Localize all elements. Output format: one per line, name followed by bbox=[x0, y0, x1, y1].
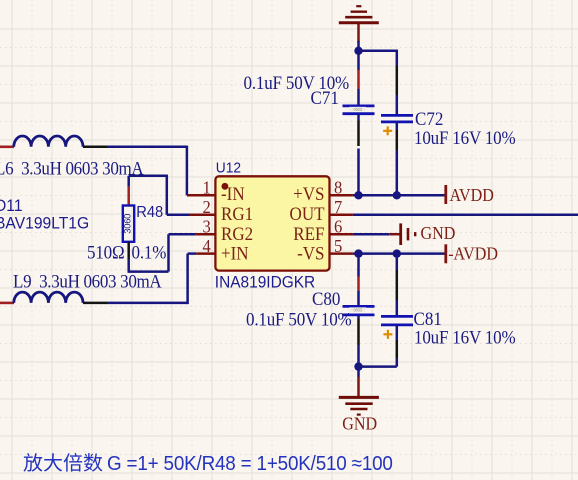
svg-text:BAV199LT1G: BAV199LT1G bbox=[0, 214, 89, 233]
pin number 4 bbox=[203, 236, 212, 256]
resistor R48 bottom pin (dark) bbox=[127, 242, 130, 259]
wire C81 to bottom junction bbox=[359, 358, 397, 367]
value C80 0.1uF 50V 10% bbox=[246, 309, 352, 330]
capacitor C71 bbox=[343, 106, 375, 114]
wire junction to GND bbox=[357, 367, 360, 377]
node junction C72/+VS bbox=[393, 191, 401, 199]
wire into C81 top plate bbox=[396, 300, 399, 316]
svg-text:AVDD: AVDD bbox=[450, 185, 494, 205]
power ground GND (right, rotated earth) bbox=[389, 223, 455, 245]
label R48 bbox=[136, 203, 163, 221]
inductor L9 pin stub (red) bbox=[0, 302, 14, 305]
pin name -IN bbox=[221, 183, 245, 204]
power ground (top earth symbol) bbox=[339, 6, 379, 42]
pin name OUT bbox=[290, 204, 325, 225]
inductor L6 bbox=[14, 136, 83, 147]
wire pin5 to -AVDD bbox=[353, 252, 446, 255]
svg-text:10uF 16V 10%: 10uF 16V 10% bbox=[414, 327, 516, 348]
pin 3 (RG2) stub bbox=[196, 233, 216, 236]
wire pin8 to AVDD bbox=[353, 194, 446, 197]
svg-text:0.1uF 50V 10%: 0.1uF 50V 10% bbox=[244, 72, 350, 93]
C81 plus sign bbox=[383, 330, 392, 339]
node bottom junction bbox=[354, 362, 362, 370]
wire L9 to pin4 bbox=[107, 254, 196, 305]
svg-text:OUT: OUT bbox=[290, 204, 325, 225]
wire REF to GND bbox=[353, 233, 389, 236]
svg-text:+IN: +IN bbox=[221, 243, 249, 264]
svg-text:6: 6 bbox=[334, 217, 343, 237]
svg-text:L9 3.3uH 0603 30mA: L9 3.3uH 0603 30mA bbox=[13, 271, 162, 292]
svg-text:D11: D11 bbox=[0, 197, 23, 216]
value R48 510ohm bbox=[87, 242, 167, 263]
pin name RG1 bbox=[221, 204, 253, 225]
svg-text:0.1uF 50V 10%: 0.1uF 50V 10% bbox=[246, 309, 352, 330]
label C72 bbox=[415, 109, 443, 130]
pin name -VS bbox=[297, 243, 324, 264]
pin 1 (-IN) stub bbox=[187, 194, 216, 197]
wire R48-top to pin2 bbox=[129, 175, 191, 215]
svg-text:GND: GND bbox=[342, 414, 377, 434]
capacitor C81 upper pin (dark) bbox=[396, 270, 399, 300]
pin name REF bbox=[293, 223, 324, 244]
svg-text:C80: C80 bbox=[312, 289, 340, 310]
wire C80 to bottom junction bbox=[357, 345, 360, 367]
svg-text:510Ω: 510Ω bbox=[87, 242, 124, 263]
node junction C71/+VS bbox=[354, 191, 362, 199]
power port -AVDD bbox=[446, 244, 498, 264]
label BAV199LT1G bbox=[0, 214, 89, 233]
pin number 7 bbox=[334, 197, 343, 217]
wire -VS to C80 bbox=[357, 254, 360, 277]
capacitor C80 lower pin (dark) bbox=[357, 315, 360, 345]
pin 4 (+IN) stub bbox=[196, 252, 215, 255]
svg-text:U12: U12 bbox=[216, 160, 241, 177]
capacitor C72 (polarized) bbox=[381, 115, 413, 122]
formula gain text bbox=[24, 452, 393, 475]
node top junction bbox=[354, 47, 362, 55]
pin 7 (OUT) stub bbox=[330, 214, 353, 217]
wire OUT to right edge bbox=[353, 214, 578, 217]
capacitor C81 (polarized) bbox=[381, 316, 413, 325]
value C81 10uF 16V 10% bbox=[414, 327, 516, 348]
svg-text:REF: REF bbox=[293, 223, 324, 244]
node junction C80/-VS bbox=[354, 249, 362, 257]
value C72 10uF 16V 10% bbox=[414, 127, 516, 148]
svg-text:-AVDD: -AVDD bbox=[448, 244, 498, 264]
svg-text:-IN: -IN bbox=[221, 183, 245, 204]
svg-text:2: 2 bbox=[203, 197, 211, 217]
svg-text:C72: C72 bbox=[415, 109, 443, 130]
power port AVDD bbox=[446, 185, 494, 205]
svg-text:-VS: -VS bbox=[297, 243, 324, 264]
wire into C72 top plate bbox=[396, 95, 399, 115]
inductor L6 right pin (dark) bbox=[83, 146, 107, 149]
pin number 5 bbox=[334, 236, 342, 256]
pin number 2 bbox=[203, 197, 211, 217]
capacitor C71 pin segment (red) bbox=[357, 70, 360, 89]
resistor R48 bbox=[123, 206, 135, 242]
C72 plus sign bbox=[383, 126, 392, 135]
svg-text:8: 8 bbox=[334, 178, 342, 198]
wire C71 to +VS rail bbox=[357, 149, 360, 196]
value C71 0.1uF 50V 10% bbox=[244, 72, 350, 93]
capacitor C80 bbox=[343, 306, 375, 315]
wire top-junction down to C71 bbox=[357, 41, 360, 70]
pin number 1 bbox=[203, 178, 211, 198]
node junction C81/-VS bbox=[393, 249, 401, 257]
svg-text:+VS: +VS bbox=[293, 183, 324, 204]
svg-text:1: 1 bbox=[203, 178, 211, 198]
svg-text:RG1: RG1 bbox=[221, 204, 253, 225]
inductor L9 bbox=[14, 292, 83, 303]
svg-text:0603: 0603 bbox=[354, 107, 363, 112]
label L9 value bbox=[13, 271, 162, 292]
wire L6 to pin1 bbox=[107, 146, 187, 196]
power ground GND (bottom earth symbol) bbox=[339, 377, 379, 434]
wire C72 to +VS rail bbox=[396, 150, 399, 195]
label C80 bbox=[312, 289, 340, 310]
pin 6 (REF) stub bbox=[330, 233, 353, 236]
svg-text:GND: GND bbox=[421, 223, 456, 243]
capacitor C81 lower pin (dark) bbox=[396, 325, 399, 358]
svg-text:G =1+ 50K/R48 = 1+50K/510 ≈100: G =1+ 50K/R48 = 1+50K/510 ≈100 bbox=[107, 452, 393, 475]
resistor R48 top pin (red) bbox=[127, 187, 130, 206]
inductor L9 right pin (dark) bbox=[83, 302, 107, 305]
svg-text:INA819IDGKR: INA819IDGKR bbox=[215, 273, 315, 292]
label D11 bbox=[0, 197, 23, 216]
label C71 bbox=[311, 88, 339, 109]
label U12 part number bbox=[215, 273, 315, 292]
svg-text:RG2: RG2 bbox=[221, 223, 253, 244]
wire into C71 top plate bbox=[357, 89, 360, 106]
svg-text:3: 3 bbox=[203, 217, 211, 237]
svg-text:5: 5 bbox=[334, 236, 342, 256]
pin 8 (+VS) stub bbox=[330, 194, 353, 197]
wire R48-bottom to pin3 bbox=[128, 234, 196, 271]
pin number 8 bbox=[334, 178, 342, 198]
svg-text:0.1%: 0.1% bbox=[132, 242, 167, 263]
pin name +IN bbox=[221, 243, 249, 264]
svg-text:L6 3.3uH 0603 30mA: L6 3.3uH 0603 30mA bbox=[0, 158, 144, 179]
capacitor C72 upper pin (dark) bbox=[396, 66, 399, 95]
capacitor C71 lower pin (dark) bbox=[357, 114, 360, 146]
capacitor C72 lower pin (dark) bbox=[396, 122, 399, 150]
inductor L6 pin stub (red) bbox=[0, 146, 14, 149]
pin name +VS bbox=[293, 183, 324, 204]
label L6 value bbox=[0, 158, 144, 179]
svg-text:7: 7 bbox=[334, 197, 343, 217]
wire -VS to C81 bbox=[396, 254, 399, 270]
wire down to R48 bbox=[127, 176, 130, 187]
svg-text:3060: 3060 bbox=[123, 214, 134, 234]
pin number 6 bbox=[334, 217, 343, 237]
op-amp U12 body bbox=[215, 176, 329, 270]
pin 2 (RG1) stub bbox=[190, 214, 216, 217]
pin 5 (-VS) stub bbox=[330, 252, 353, 255]
pin name RG2 bbox=[221, 223, 253, 244]
svg-text:10uF 16V 10%: 10uF 16V 10% bbox=[414, 127, 516, 148]
label U12 designator bbox=[216, 160, 241, 177]
label C81 bbox=[414, 309, 442, 330]
wire into C80 top plate bbox=[357, 291, 360, 307]
svg-text:R48: R48 bbox=[136, 203, 163, 221]
pin number 3 bbox=[203, 217, 211, 237]
capacitor C80 pin segment (red) bbox=[357, 277, 360, 291]
svg-text:0603: 0603 bbox=[354, 307, 363, 312]
U12 pin-1 dot bbox=[222, 183, 229, 190]
wire top-junction right then down to C72 bbox=[359, 50, 397, 66]
svg-text:4: 4 bbox=[203, 236, 212, 256]
